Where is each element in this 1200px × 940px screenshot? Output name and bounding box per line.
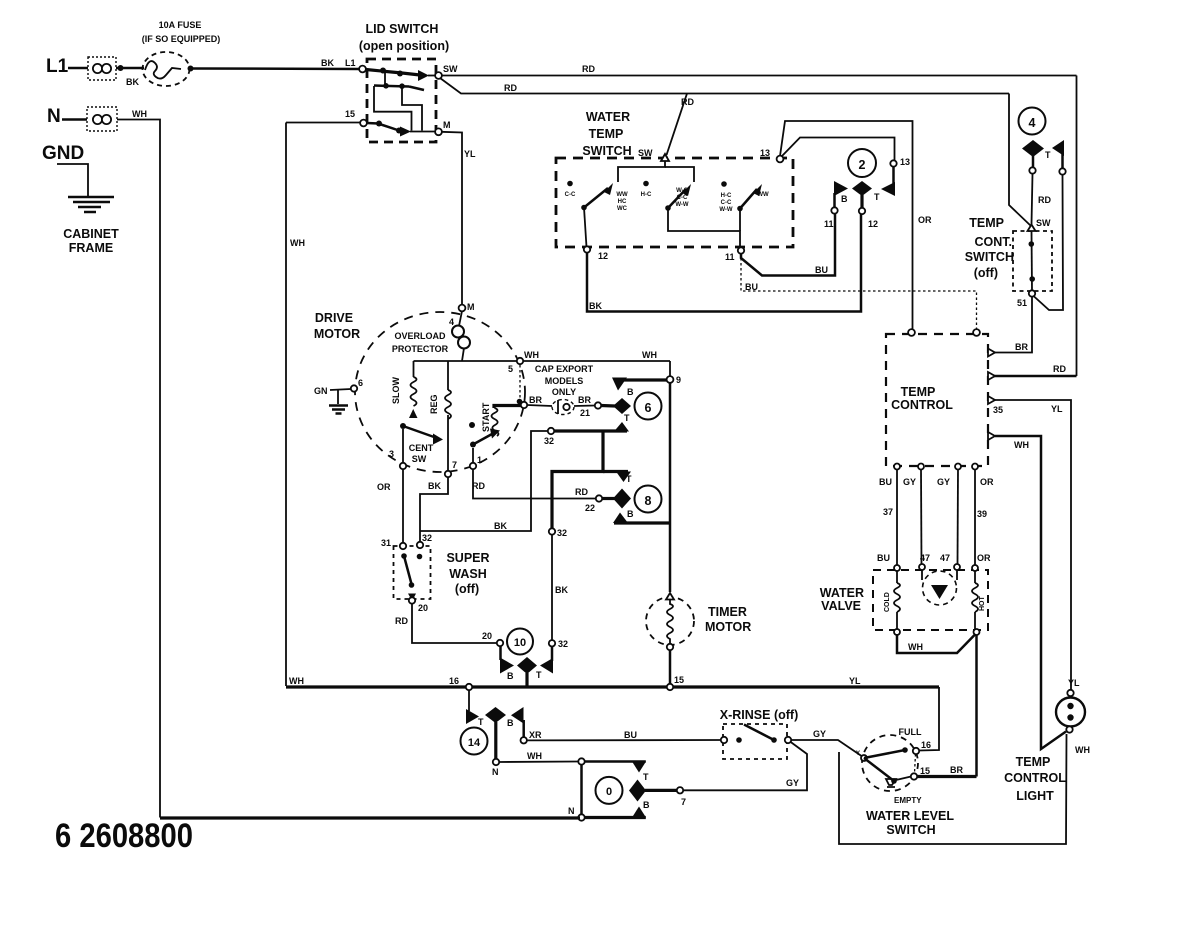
svg-text:DRIVE: DRIVE [315, 311, 353, 325]
water level switch FULL contact [864, 727, 931, 758]
svg-text:C-C: C-C [721, 200, 732, 206]
svg-text:MODELS: MODELS [545, 376, 584, 386]
wire GY x-rinse to water level switch [791, 729, 863, 757]
wire N bus bottom [160, 816, 580, 819]
svg-text:BR: BR [950, 765, 963, 775]
svg-text:9: 9 [676, 375, 681, 385]
svg-text:W-C: W-C [676, 188, 689, 194]
svg-text:T: T [1045, 150, 1051, 160]
svg-text:OVERLOAD: OVERLOAD [394, 331, 446, 341]
node 15 on bus [667, 675, 684, 690]
svg-text:SUPER: SUPER [446, 551, 489, 565]
svg-text:WH: WH [908, 642, 923, 652]
svg-text:12: 12 [598, 251, 608, 261]
svg-text:CAP EXPORT: CAP EXPORT [535, 364, 594, 374]
svg-text:B: B [841, 194, 848, 204]
wire WH motor top bus [414, 350, 671, 361]
timer cam 8 [635, 486, 662, 513]
svg-text:YL: YL [1051, 404, 1063, 414]
temp control U1 [886, 334, 988, 466]
node 32 mid [549, 528, 567, 538]
node M of lid switch [435, 120, 450, 135]
svg-text:COLD: COLD [884, 592, 891, 612]
wire RD right vertical down to temp control [1076, 76, 1078, 377]
node 31 [381, 538, 406, 549]
svg-text:N: N [492, 767, 499, 777]
svg-text:GN: GN [314, 386, 328, 396]
svg-text:BU: BU [624, 730, 637, 740]
svg-text:WC: WC [617, 206, 628, 212]
svg-text:W-W: W-W [675, 202, 689, 208]
svg-text:22: 22 [585, 503, 595, 513]
svg-text:HC: HC [618, 199, 627, 205]
svg-text:7: 7 [452, 460, 457, 470]
wire OR node 3 to super wash [377, 469, 403, 543]
cam 4 diamond [1022, 140, 1044, 168]
cam 10 contact B [500, 646, 514, 681]
svg-text:RD: RD [472, 481, 485, 491]
winding SLOW [391, 361, 418, 418]
water level switch pivot Y [856, 751, 867, 761]
node 15 of water level switch [911, 754, 930, 780]
node SW of temp cont switch [1028, 218, 1052, 231]
switch 0 box [568, 758, 646, 820]
node 20 [409, 597, 428, 613]
temp control right pin BR [988, 349, 995, 357]
wire RD top from lid switch SW to right side [441, 64, 1077, 76]
svg-text:10A FUSE: 10A FUSE [159, 20, 202, 30]
svg-text:14: 14 [468, 737, 481, 749]
svg-text:TEMP: TEMP [1016, 755, 1051, 769]
svg-text:47: 47 [920, 553, 930, 563]
svg-text:WH: WH [524, 350, 539, 360]
cam 8 diamond [600, 474, 632, 509]
svg-text:B: B [627, 509, 634, 519]
wire RD cam4 to SW of temp cont switch [1032, 174, 1052, 224]
svg-text:START: START [481, 402, 491, 432]
svg-text:13: 13 [900, 157, 910, 167]
svg-text:BK: BK [126, 77, 139, 87]
wire RD temp control to right vertical [994, 364, 1077, 376]
svg-text:VALVE: VALVE [821, 599, 861, 613]
svg-text:B: B [507, 671, 514, 681]
node 15 of lid switch [345, 109, 367, 126]
svg-text:20: 20 [418, 603, 428, 613]
winding REG [429, 361, 451, 471]
svg-text:MOTOR: MOTOR [705, 620, 751, 634]
svg-text:LID SWITCH: LID SWITCH [366, 22, 439, 36]
svg-text:4: 4 [449, 317, 454, 327]
svg-text:HOT: HOT [979, 596, 986, 612]
svg-text:H-C: H-C [721, 193, 732, 199]
svg-text:5: 5 [508, 364, 513, 374]
svg-text:16: 16 [921, 740, 931, 750]
svg-text:RD: RD [575, 487, 588, 497]
svg-text:SWITCH: SWITCH [965, 250, 1014, 264]
svg-text:H-C: H-C [641, 192, 652, 198]
svg-text:WH: WH [290, 238, 305, 248]
svg-text:EMPTY: EMPTY [894, 796, 922, 805]
svg-text:SLOW: SLOW [391, 376, 401, 404]
svg-text:(off): (off) [974, 266, 998, 280]
cam 14 diamond [485, 707, 506, 759]
switch arm 2 [665, 184, 691, 211]
svg-text:BK: BK [428, 481, 441, 491]
x-rinse switch S5 (off) [720, 708, 798, 759]
cam 8 contact B [613, 509, 670, 523]
node L1 at lid switch [359, 66, 366, 73]
super wash switch S4 (off) [394, 546, 490, 599]
cam 0 diamond [629, 780, 677, 802]
valve top pins [894, 564, 978, 571]
wire BK connector to fuse [116, 65, 144, 87]
wire RD down to temp cont switch [1009, 94, 1031, 227]
svg-text:RD: RD [1053, 364, 1066, 374]
svg-text:YL: YL [1068, 678, 1080, 688]
svg-text:16: 16 [449, 676, 459, 686]
lid switch pole 1 (top) [366, 68, 435, 82]
cam 2 contact B [834, 181, 848, 208]
svg-text:SW: SW [638, 148, 653, 158]
svg-text:M: M [467, 302, 475, 312]
timer cam 4 [1019, 108, 1046, 135]
node 7 under REG [445, 460, 457, 477]
svg-text:CONT.: CONT. [975, 235, 1013, 249]
connector P2 (N) [87, 107, 117, 131]
node 16 on bus [449, 676, 472, 690]
svg-text:RD: RD [1038, 195, 1051, 205]
node 12 under cam 2 [859, 208, 878, 229]
svg-text:WATER LEVEL: WATER LEVEL [866, 809, 954, 823]
svg-text:SWITCH: SWITCH [886, 823, 935, 837]
node 22 [575, 487, 602, 513]
svg-text:BK: BK [589, 301, 602, 311]
water level switch EMPTY contact [864, 758, 922, 805]
svg-text:C-C: C-C [565, 192, 576, 198]
svg-text:WH: WH [1014, 440, 1029, 450]
svg-text:32: 32 [422, 533, 432, 543]
svg-text:N: N [47, 106, 61, 127]
node M at overload protector [459, 302, 475, 312]
wire L1 to connector [68, 67, 88, 70]
wire BU node XR to x-rinse [527, 730, 721, 740]
svg-text:15: 15 [920, 766, 930, 776]
water valve V1 [820, 570, 988, 630]
wire cam8 T loop [552, 431, 631, 529]
wire OR node 13 to temp control [780, 121, 932, 329]
svg-text:ONLY: ONLY [552, 387, 576, 397]
svg-text:BR: BR [578, 395, 591, 405]
svg-text:8: 8 [645, 494, 652, 508]
cam 0 contact B [632, 800, 650, 818]
svg-text:FRAME: FRAME [69, 241, 113, 255]
temp cont switch contacts [1029, 231, 1035, 291]
node 21 [578, 395, 601, 418]
cam 10 diamond [517, 657, 537, 686]
svg-text:GY: GY [813, 729, 826, 739]
cam 10 contact T [536, 646, 553, 680]
svg-text:MOTOR: MOTOR [314, 327, 360, 341]
cam 6 diamond [601, 398, 631, 414]
svg-text:TEMP: TEMP [589, 127, 624, 141]
svg-text:32: 32 [557, 528, 567, 538]
svg-text:REG: REG [429, 394, 439, 414]
lid switch S1 (open position) [359, 22, 449, 142]
svg-text:W-W: W-W [719, 207, 733, 213]
svg-text:B: B [627, 387, 634, 397]
wire N to connector [62, 118, 87, 121]
svg-text:(IF SO EQUIPPED): (IF SO EQUIPPED) [142, 34, 221, 44]
svg-text:13: 13 [760, 148, 770, 158]
cam 0 contact T [632, 762, 649, 783]
node 32 low [549, 639, 568, 649]
cam 14 contact B [507, 707, 524, 737]
cam 2 contact T [874, 167, 895, 202]
svg-text:TEMP: TEMP [901, 385, 936, 399]
svg-text:SW: SW [412, 454, 427, 464]
svg-text:N: N [568, 806, 575, 816]
svg-text:BU: BU [879, 477, 892, 487]
node on temp control top left [908, 329, 915, 336]
node under cam 4 T [1059, 168, 1065, 174]
wire YL pin 35 to temp control light [995, 400, 1071, 690]
svg-text:CONTROL: CONTROL [1004, 771, 1066, 785]
svg-text:BK: BK [555, 585, 568, 595]
ground GN node 6 [314, 378, 363, 414]
connector P1 (L1) [88, 57, 116, 80]
node 32 super wash [417, 533, 432, 548]
wire BR node 15 to valve [917, 765, 977, 777]
wire GY1 temp control to valve [903, 469, 930, 564]
capacitor C1 (cap export models only) [517, 364, 595, 415]
node SW of water temp switch [638, 148, 669, 161]
node N under cam 14 [492, 759, 499, 777]
svg-text:WH: WH [132, 109, 147, 119]
svg-text:10: 10 [514, 637, 526, 649]
svg-text:WATER: WATER [586, 110, 630, 124]
temp control right pin 35 [988, 396, 1003, 415]
wire RD second from lid switch SW [440, 78, 1009, 94]
node 5 on motor bus [508, 358, 523, 374]
svg-text:0: 0 [606, 786, 612, 798]
svg-text:LIGHT: LIGHT [1016, 789, 1054, 803]
svg-text:11: 11 [725, 252, 735, 262]
switch arm 3 [737, 184, 769, 211]
wire BK branch to node 32 [420, 431, 548, 531]
node 12 of water temp switch [584, 246, 608, 261]
wire heavy from node 9 down to timer motor [669, 383, 672, 592]
cam 4 contact T [1045, 140, 1064, 169]
svg-text:6: 6 [645, 401, 652, 415]
svg-text:L1: L1 [345, 58, 356, 68]
svg-text:35: 35 [993, 405, 1003, 415]
svg-text:32: 32 [558, 639, 568, 649]
drive motor M1 [314, 311, 525, 472]
svg-text:SW: SW [443, 64, 458, 74]
svg-text:PROTECTOR: PROTECTOR [392, 344, 449, 354]
wire RD node 20 to cam 10 [395, 604, 497, 643]
temp cont switch S3 [965, 216, 1052, 291]
cam 6 contact T [551, 413, 630, 432]
wire WH temp control to lamp [995, 436, 1066, 749]
svg-text:C-C: C-C [677, 195, 688, 201]
svg-text:XR: XR [529, 730, 542, 740]
node on temp control top right [973, 329, 980, 336]
svg-text:3: 3 [389, 449, 394, 459]
svg-text:WASH: WASH [449, 567, 487, 581]
contact 3 [719, 181, 733, 213]
svg-text:RD: RD [504, 83, 517, 93]
svg-text:FULL: FULL [899, 727, 922, 737]
svg-text:OR: OR [980, 477, 994, 487]
svg-text:15: 15 [345, 109, 355, 119]
svg-text:T: T [624, 413, 630, 423]
svg-text:1: 1 [477, 455, 482, 465]
svg-text:YL: YL [849, 676, 861, 686]
svg-text:2: 2 [859, 158, 866, 172]
svg-text:T: T [643, 772, 649, 782]
wire BK node 32 mid to node 32 low [552, 535, 568, 640]
svg-text:B: B [507, 718, 514, 728]
start switch [469, 422, 500, 463]
wire BU dotted from node 11 to temp control [741, 258, 977, 329]
node 13 of water temp switch [760, 148, 783, 162]
svg-text:WW: WW [616, 192, 628, 198]
node 20 at cam 10 [482, 631, 503, 646]
svg-text:CENT: CENT [409, 443, 434, 453]
main WH bus [286, 676, 939, 687]
svg-text:12: 12 [868, 219, 878, 229]
node SW of lid switch [435, 64, 458, 79]
svg-text:6: 6 [358, 378, 363, 388]
svg-text:WW: WW [757, 192, 769, 198]
valve solenoid COLD [884, 571, 900, 630]
svg-text:GY: GY [786, 778, 799, 788]
ground cabinet frame [57, 164, 119, 255]
water level switch enclosure [839, 734, 1067, 844]
wire BR node 51 to temp control [994, 297, 1032, 353]
cam 6 contact B [612, 378, 668, 398]
svg-text:L1: L1 [46, 56, 69, 77]
wire WH valve bottom jog [897, 634, 976, 653]
cam 14 contact T [466, 690, 484, 727]
svg-text:20: 20 [482, 631, 492, 641]
wire fuse to lid switch [193, 58, 359, 69]
node 11 under cam 2 [824, 207, 838, 229]
wire from node 15 to left column [286, 122, 360, 124]
node 13 above cam 2 T [890, 157, 910, 167]
temp control right pin RD [988, 372, 995, 380]
node 51 [1017, 290, 1035, 308]
node 1 under start switch [470, 455, 482, 469]
wire BR valve to water level switch [975, 635, 978, 777]
svg-text:SW: SW [1036, 218, 1051, 228]
valve bottom pins [894, 629, 980, 635]
svg-text:4: 4 [1029, 116, 1036, 130]
svg-text:Y: Y [856, 751, 860, 757]
winding START [481, 402, 523, 436]
node 3 [389, 429, 406, 469]
svg-text:47: 47 [940, 553, 950, 563]
contact C-C [565, 181, 576, 198]
svg-text:WH: WH [527, 751, 542, 761]
water temp switch S2 [556, 110, 793, 247]
centrifugal switch [400, 423, 443, 464]
svg-text:T: T [478, 717, 484, 727]
timer cam 6 [635, 393, 662, 420]
water level switch S6 [862, 735, 954, 837]
overload protector [392, 311, 470, 361]
svg-text:WH: WH [642, 350, 657, 360]
wire arm1 to node 12 [584, 208, 587, 248]
wire RD branch down to water temp switch SW [667, 94, 688, 156]
contact H-C [641, 181, 652, 198]
wire WH node N to switch 0 [499, 751, 578, 762]
svg-text:B: B [643, 800, 650, 810]
svg-text:(off): (off) [455, 582, 479, 596]
temp control bottom pins [894, 464, 978, 470]
svg-text:BR: BR [1015, 342, 1028, 352]
wire node 13 to circle 2 T [782, 138, 895, 161]
svg-text:BU: BU [745, 282, 758, 292]
svg-text:CABINET: CABINET [63, 227, 119, 241]
timer cam 10 [507, 629, 533, 655]
svg-text:51: 51 [1017, 298, 1027, 308]
svg-text:BK: BK [321, 58, 334, 68]
temp control light DS1 [1004, 678, 1090, 803]
svg-text:21: 21 [580, 408, 590, 418]
wire arm2 arm3 to node 11 [668, 208, 740, 248]
wire cam4 T down to node 51 [1033, 175, 1063, 310]
svg-text:BU: BU [877, 553, 890, 563]
svg-text:T: T [536, 670, 542, 680]
svg-text:7: 7 [681, 797, 686, 807]
node 9 [667, 361, 681, 385]
temp control right pin WH [988, 432, 995, 440]
svg-text:15: 15 [674, 675, 684, 685]
svg-text:37: 37 [883, 507, 893, 517]
water temp switch internal bus [618, 161, 694, 182]
svg-text:6 2608800: 6 2608800 [55, 817, 193, 855]
svg-text:T: T [874, 192, 880, 202]
node 11 of water temp switch [725, 247, 744, 262]
wire GY2 temp control to valve [937, 469, 958, 564]
svg-text:39: 39 [977, 509, 987, 519]
svg-text:31: 31 [381, 538, 391, 548]
wire BU temp control to valve [877, 469, 897, 565]
svg-text:(open position): (open position) [359, 39, 449, 53]
svg-text:TIMER: TIMER [708, 605, 747, 619]
wire WH from N connector down left side to bottom [117, 109, 160, 818]
svg-text:X-RINSE (off): X-RINSE (off) [720, 708, 798, 722]
wire BK node 7 to super wash [420, 477, 448, 543]
fuse F1 10A [142, 20, 221, 86]
super wash contacts [401, 553, 422, 601]
svg-text:OR: OR [377, 482, 391, 492]
wire YL from node M down to drive motor [441, 132, 476, 305]
svg-text:CONTROL: CONTROL [891, 398, 953, 412]
valve mixing chamber [922, 570, 957, 605]
svg-text:T: T [626, 474, 632, 484]
switch arm 1 [581, 183, 628, 212]
svg-text:M: M [443, 120, 451, 130]
svg-text:32: 32 [544, 436, 554, 446]
wire BK node 12 to circle 2 diamond [587, 214, 861, 312]
svg-text:BR: BR [529, 395, 542, 405]
wire BU node 11 to circle 2 B [741, 213, 835, 276]
svg-text:WH: WH [1075, 745, 1090, 755]
svg-text:RD: RD [681, 97, 694, 107]
